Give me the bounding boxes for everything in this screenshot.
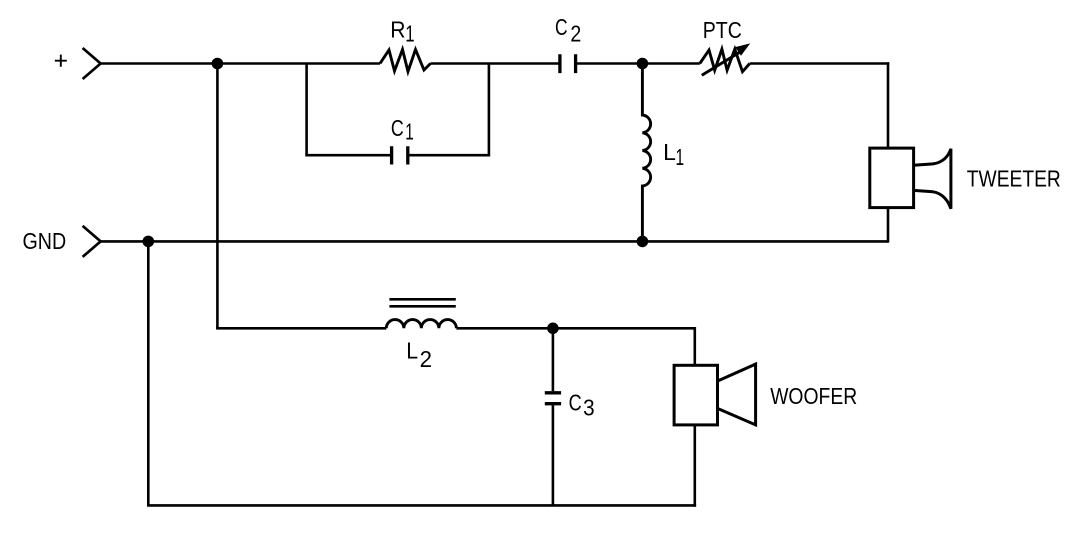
inductor L2 core lines (389, 299, 455, 306)
speaker WOOFER body (674, 365, 717, 425)
wire GND row (100, 240, 888, 243)
wire L2 row left (216, 327, 386, 330)
wire top from input to R1 (100, 62, 380, 65)
wire L2 to woofer corner (456, 327, 694, 330)
svg-text:R: R (390, 17, 405, 43)
svg-text:L: L (663, 139, 676, 165)
svg-text:C: C (555, 14, 568, 40)
junction dot at C3 node (547, 323, 559, 335)
terminal GND connector (83, 226, 101, 257)
speaker TWEETER body (870, 148, 914, 208)
thermistor PTC arrow (702, 51, 742, 75)
thermistor PTC zigzag (700, 49, 750, 72)
svg-text:GND: GND (23, 228, 67, 254)
svg-text:C: C (391, 115, 404, 141)
svg-text:1: 1 (676, 144, 685, 170)
svg-text:2: 2 (570, 21, 581, 47)
wire bottom row (147, 504, 696, 507)
junction dot at L1 bottom (637, 236, 649, 248)
speaker WOOFER horn (717, 364, 755, 425)
wire C3 top vertical (552, 328, 555, 391)
svg-text:2: 2 (420, 346, 432, 372)
capacitor C2 (560, 54, 576, 73)
wire vertical from top junction down to L2 row (216, 64, 219, 329)
svg-text:WOOFER: WOOFER (770, 383, 857, 409)
label + (55, 55, 67, 67)
inductor L1 (642, 64, 650, 242)
svg-text:3: 3 (583, 395, 595, 421)
inductor L2 (386, 320, 456, 329)
svg-text:L: L (406, 337, 418, 363)
capacitor C3 (545, 393, 561, 404)
wire woofer bottom vertical (693, 425, 696, 507)
svg-text:PTC: PTC (703, 17, 742, 43)
wire tweeter bottom vertical (887, 208, 890, 243)
terminal + input connector (83, 48, 101, 79)
resistor R1 (380, 50, 431, 72)
wire C1 branch bottom right (409, 154, 489, 157)
svg-text:1: 1 (405, 21, 414, 47)
speaker TWEETER horn (914, 149, 951, 209)
wire left vertical down to bottom row (147, 241, 150, 505)
junction dot top left (212, 58, 224, 70)
svg-text:TWEETER: TWEETER (967, 166, 1061, 192)
wire C1 branch bottom left (305, 154, 390, 157)
wire C2 to PTC (577, 62, 700, 65)
wire woofer top vertical (693, 327, 696, 365)
wire R1 to C2 (431, 62, 559, 65)
svg-text:1: 1 (405, 118, 414, 144)
junction dot at C2/L1 node (637, 58, 649, 70)
wire C3 bottom vertical (552, 405, 555, 505)
wire right vertical of R1/C1 branch (488, 64, 491, 157)
wire tweeter top vertical (887, 62, 890, 148)
svg-text:C: C (569, 390, 582, 416)
wire left vertical of R1/C1 branch (305, 64, 308, 156)
junction dot GND left (143, 236, 155, 248)
capacitor C1 (392, 146, 408, 164)
wire PTC to tweeter top (750, 62, 890, 65)
